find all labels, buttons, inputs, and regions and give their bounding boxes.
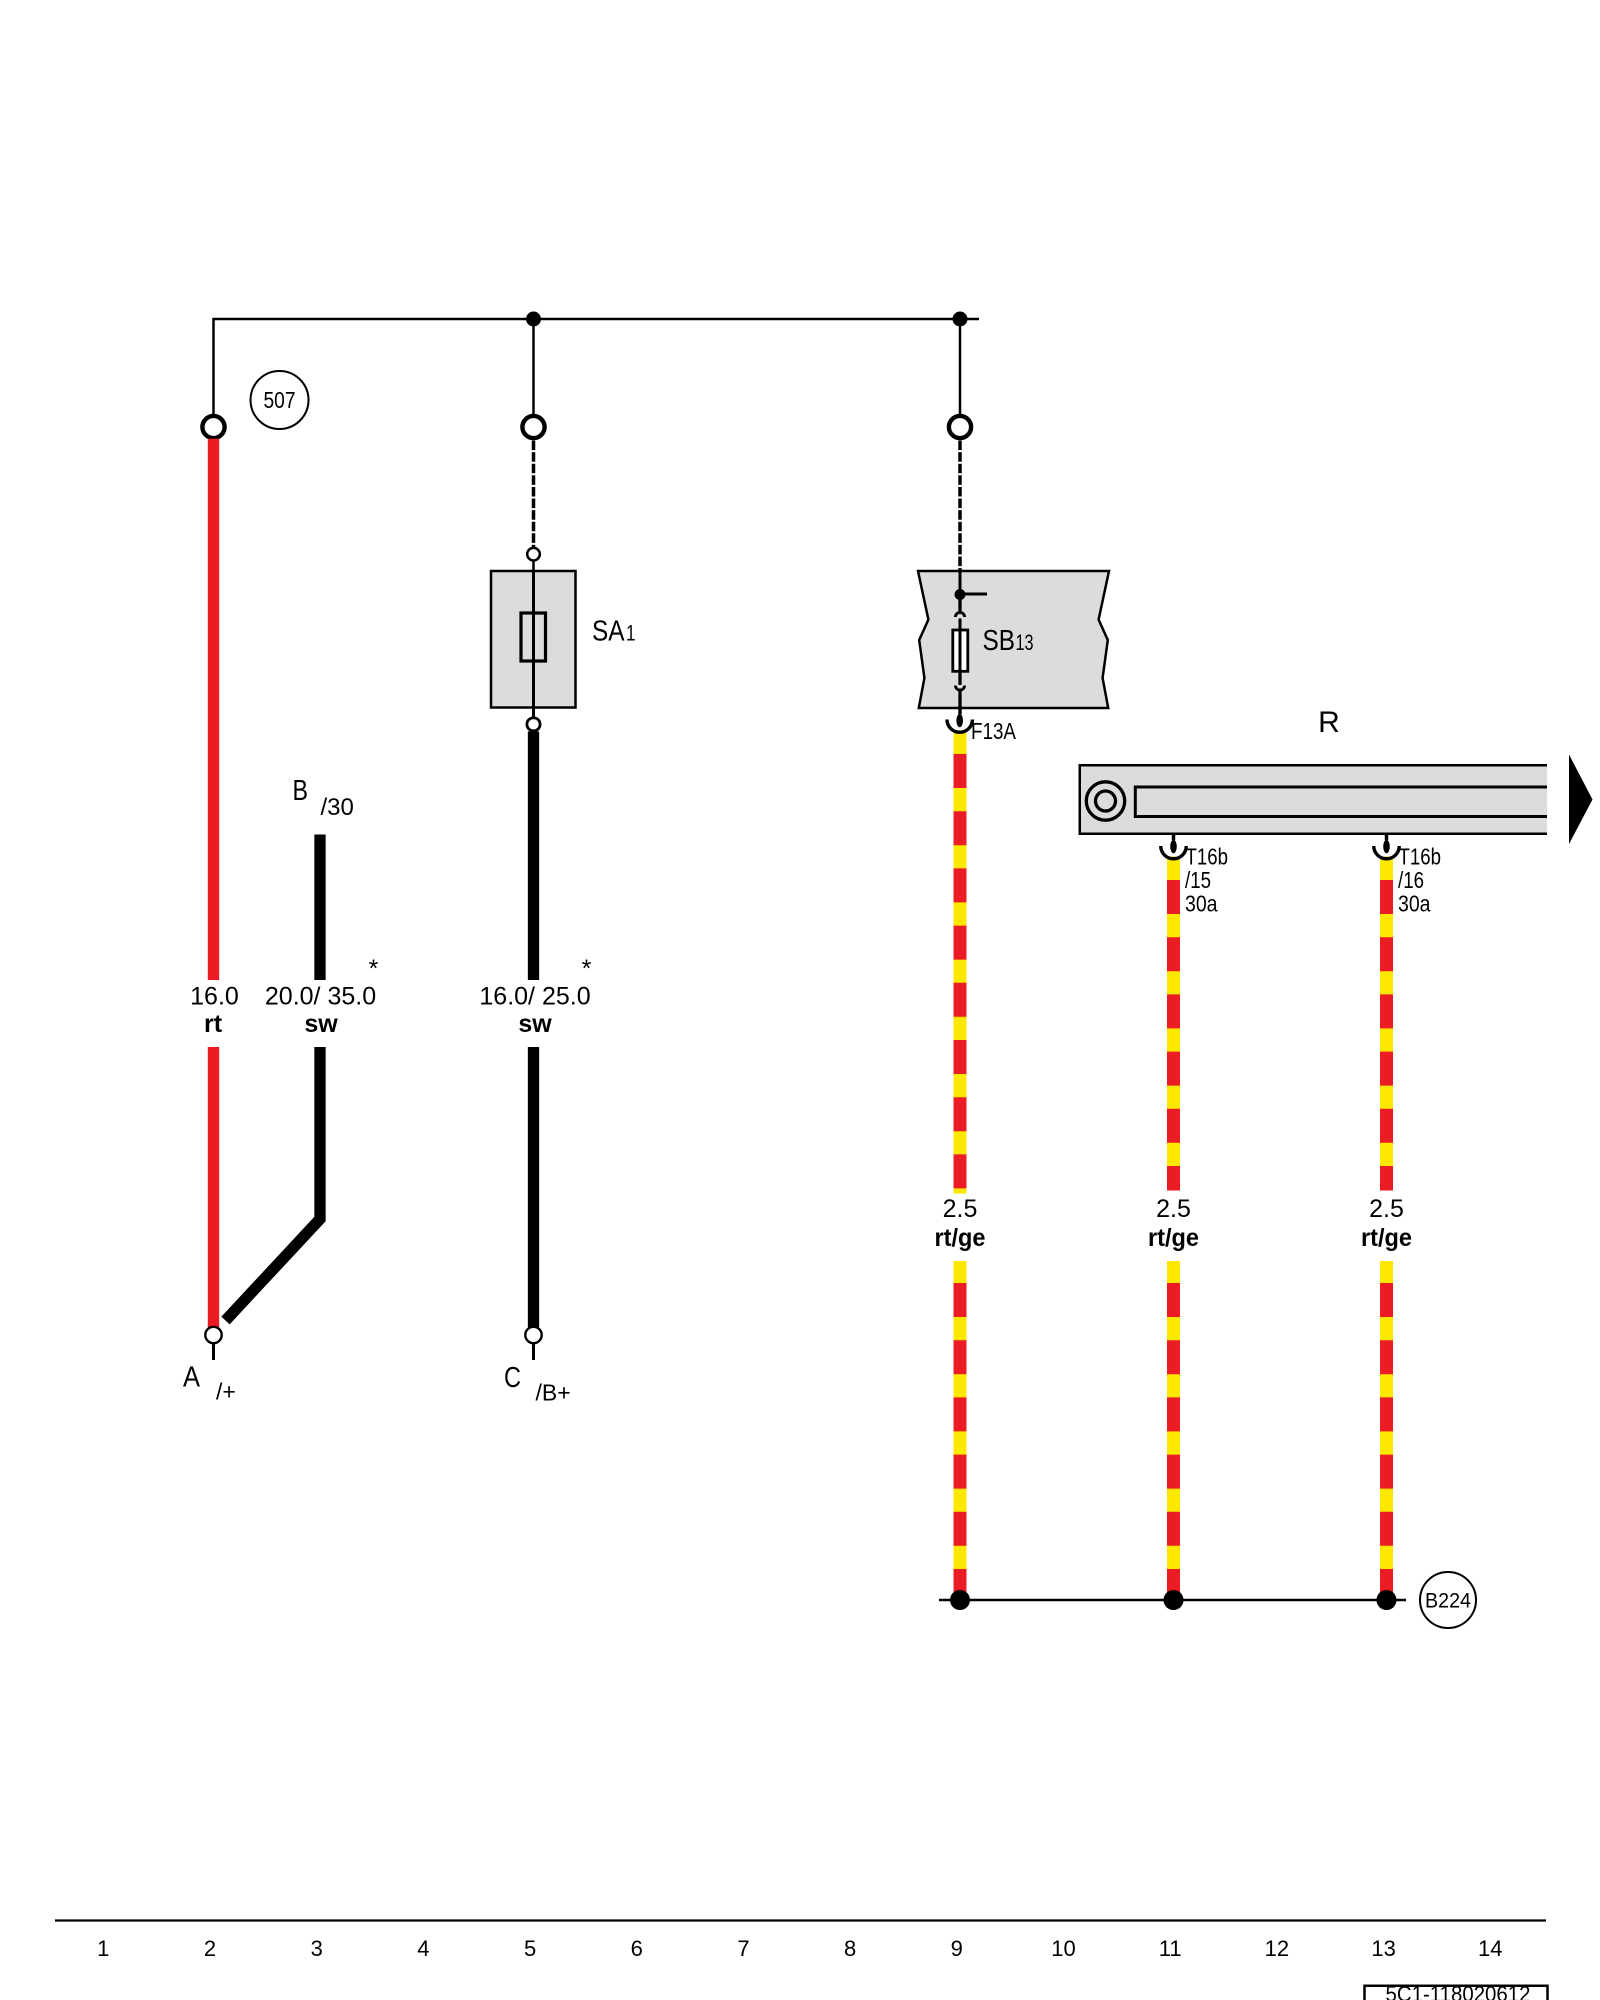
svg-text:12: 12 [1265,1936,1289,1961]
svg-text:5: 5 [524,1936,536,1961]
svg-text:2.5: 2.5 [1369,1195,1404,1223]
svg-text:rt/ge: rt/ge [1148,1224,1199,1252]
svg-text:16.0: 16.0 [190,983,239,1011]
svg-text:1: 1 [97,1936,109,1961]
svg-text:/B+: /B+ [536,1380,571,1406]
svg-text:B224: B224 [1425,1590,1471,1613]
svg-text:R: R [1318,706,1340,739]
svg-text:13: 13 [1016,630,1034,655]
svg-text:/+: /+ [216,1379,236,1405]
svg-text:*: * [369,955,379,983]
svg-text:B: B [293,775,309,807]
svg-text:rt: rt [204,1010,223,1038]
svg-text:/30: /30 [321,794,354,821]
svg-text:507: 507 [264,387,296,413]
svg-text:6: 6 [631,1936,643,1961]
svg-text:3: 3 [311,1936,323,1961]
svg-text:/15: /15 [1185,867,1211,893]
svg-text:7: 7 [737,1936,749,1961]
svg-text:2.5: 2.5 [1156,1195,1191,1223]
svg-text:SB: SB [983,625,1016,657]
svg-text:30a: 30a [1398,891,1431,917]
svg-text:16.0/ 25.0: 16.0/ 25.0 [479,983,590,1011]
svg-text:5C1-118020612: 5C1-118020612 [1386,1982,1531,2000]
svg-text:T16b: T16b [1186,844,1229,870]
svg-text:rt/ge: rt/ge [935,1224,986,1252]
svg-text:9: 9 [951,1936,963,1961]
svg-text:sw: sw [304,1010,338,1038]
svg-text:13: 13 [1371,1936,1395,1961]
svg-text:1: 1 [626,621,636,646]
svg-text:10: 10 [1051,1936,1075,1961]
svg-text:30a: 30a [1185,891,1218,917]
svg-text:4: 4 [417,1936,429,1961]
svg-text:14: 14 [1478,1936,1502,1961]
svg-text:11: 11 [1159,1936,1182,1961]
svg-text:8: 8 [844,1936,856,1961]
svg-text:*: * [582,955,592,983]
svg-text:A: A [183,1362,201,1394]
svg-text:2.5: 2.5 [943,1195,978,1223]
svg-text:2: 2 [204,1936,216,1961]
svg-text:C: C [504,1362,521,1394]
svg-text:F13A: F13A [971,718,1017,744]
svg-text:/16: /16 [1398,867,1424,893]
svg-text:rt/ge: rt/ge [1361,1224,1412,1252]
svg-text:T16b: T16b [1399,844,1442,870]
svg-text:sw: sw [518,1010,552,1038]
svg-text:20.0/ 35.0: 20.0/ 35.0 [265,983,376,1011]
svg-text:SA: SA [592,616,625,648]
